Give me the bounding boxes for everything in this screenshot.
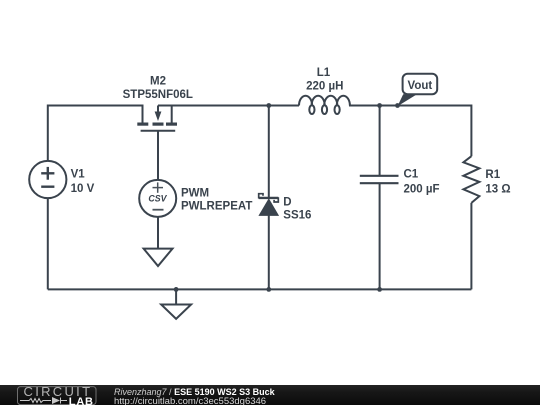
capacitor C1	[360, 176, 399, 183]
footer title text	[114, 388, 275, 397]
M2 body arrow	[155, 112, 162, 122]
wire: R1 bottom to ground rail	[470, 203, 472, 290]
svg-text:LAB: LAB	[69, 396, 94, 405]
M2 channel bar drain	[137, 123, 148, 126]
wire: M2 gate to PWM source	[157, 131, 159, 181]
svg-text:13 Ω: 13 Ω	[485, 184, 510, 196]
CSV source PWM	[139, 180, 176, 217]
wire: PWM source to ground symbol	[157, 217, 159, 249]
M2 drain stub	[142, 105, 144, 123]
M2 gate plate	[141, 130, 176, 132]
wire: ground rail stub to ground symbol	[175, 289, 177, 304]
wire: output node to C1 top	[379, 106, 381, 176]
svg-text:200 µF: 200 µF	[404, 183, 440, 195]
diode D	[258, 194, 279, 216]
svg-text:SS16: SS16	[283, 210, 311, 222]
footer url text	[114, 397, 266, 405]
svg-text:D: D	[283, 196, 291, 208]
node Vout flag pointer	[398, 94, 418, 106]
wire: bottom ground rail	[48, 288, 472, 290]
ground below bottom rail	[161, 305, 191, 319]
svg-text:R1: R1	[485, 169, 500, 181]
svg-text:Vout: Vout	[408, 80, 433, 92]
voltage source V1	[29, 161, 66, 198]
junction: switch node top	[266, 103, 271, 108]
footer bar	[0, 385, 540, 405]
M2 source stub	[171, 105, 173, 123]
svg-text:10 V: 10 V	[71, 183, 95, 195]
transistor M2	[137, 105, 177, 131]
junction: output node at C1	[377, 103, 382, 108]
D cathode bar with schottky hooks	[259, 194, 263, 199]
svg-text:M2: M2	[150, 76, 166, 88]
D anode triangle	[258, 198, 279, 216]
M2 body stub	[157, 106, 159, 114]
junction: Vout anchor	[395, 103, 400, 108]
CircuitLab logo	[0, 385, 100, 405]
svg-text:STP55NF06L: STP55NF06L	[123, 89, 193, 101]
junction: ground stub	[174, 287, 179, 292]
resistor R1	[463, 156, 479, 203]
inductor L1	[299, 96, 350, 114]
node Vout flag box	[403, 74, 438, 94]
svg-text:PWM: PWM	[181, 187, 209, 199]
svg-text:CSV: CSV	[148, 194, 167, 204]
M2 channel bar source	[166, 123, 177, 126]
wire: V1 top to M2 drain	[48, 106, 144, 162]
wire: diode anode to ground rail	[268, 216, 270, 290]
svg-text:220 µH: 220 µH	[306, 80, 343, 92]
junction: C1 bottom at rail	[377, 287, 382, 292]
M2 channel bar body	[153, 123, 164, 126]
wire: switch node to diode cathode	[268, 106, 270, 199]
ground below PWM source	[144, 249, 173, 266]
wire: M2 source to L1	[158, 105, 299, 107]
svg-text:PWLREPEAT: PWLREPEAT	[181, 200, 252, 212]
svg-text:V1: V1	[71, 169, 86, 181]
wire: C1 bottom to ground rail	[379, 183, 381, 289]
svg-text:C1: C1	[404, 169, 419, 181]
junction: diode anode at rail	[266, 287, 271, 292]
wire: L1 to R1 top corner	[349, 106, 471, 157]
svg-text:L1: L1	[317, 67, 331, 79]
wire: V1 bottom to ground rail	[47, 198, 49, 290]
